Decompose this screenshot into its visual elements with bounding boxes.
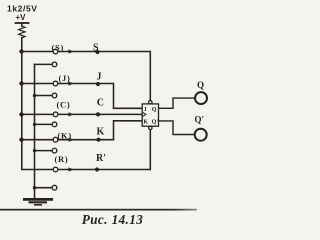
svg-text:Рис. 14.13: Рис. 14.13 <box>82 212 144 227</box>
wire Q' output <box>159 121 196 135</box>
terminal Q <box>195 92 207 104</box>
wire stub C to ground bus <box>35 123 53 125</box>
ground <box>23 199 53 204</box>
svg-text:Q: Q <box>197 80 204 90</box>
svg-text:(J): (J) <box>59 73 71 83</box>
svg-text:J: J <box>97 72 102 83</box>
terminal Q' <box>195 129 207 141</box>
wire stub J to ground bus <box>35 95 53 97</box>
value label 1k2/5V <box>7 4 38 14</box>
svg-text:Q: Q <box>152 107 157 113</box>
wire row J <box>22 84 143 109</box>
svg-text:S: S <box>93 43 99 54</box>
wire row S <box>22 52 151 104</box>
bottom rule <box>0 0 1 1</box>
junction dots on ground bus <box>33 94 36 190</box>
wire stub R to ground bus <box>35 187 53 189</box>
svg-text:Q': Q' <box>195 115 205 125</box>
wire stub K to ground bus <box>35 150 53 152</box>
svg-text:Q': Q' <box>152 120 159 126</box>
switch SW-C <box>52 112 73 127</box>
svg-text:(C): (C) <box>57 99 71 109</box>
switch SW-J <box>52 81 73 98</box>
op flip-flop U1 box <box>142 104 158 126</box>
resistor R 1k2 <box>19 26 25 38</box>
wire stub S to ground bus <box>35 63 53 65</box>
svg-text:+V: +V <box>16 13 27 22</box>
supply +V symbol <box>16 13 27 22</box>
svg-text:K: K <box>97 126 105 137</box>
svg-text:K: K <box>143 120 148 126</box>
wire supply to resistor <box>21 23 23 26</box>
switch SW-R <box>52 167 73 190</box>
inversion bubble S pin <box>149 101 152 104</box>
svg-text:(R): (R) <box>55 154 69 164</box>
wire ground bus <box>34 64 36 197</box>
junction dots on +V bus <box>19 49 23 142</box>
inversion bubble R pin <box>149 126 152 129</box>
svg-text:J: J <box>144 107 147 113</box>
wire row C <box>22 113 143 115</box>
svg-text:(K): (K) <box>58 130 72 140</box>
svg-text:(S): (S) <box>52 43 65 53</box>
switch SW-K <box>52 137 73 153</box>
svg-text:C: C <box>97 98 104 109</box>
svg-text:R': R' <box>96 153 106 164</box>
node dots under letter labels <box>95 50 101 172</box>
wire row K <box>22 121 143 140</box>
clock triangle C pin <box>142 112 146 116</box>
svg-text:1k2/5V: 1k2/5V <box>7 4 38 14</box>
wire Q output <box>159 98 196 108</box>
wire main +V bus <box>22 38 151 170</box>
switch SW-S (pole circle + blade arrow) <box>52 49 73 67</box>
